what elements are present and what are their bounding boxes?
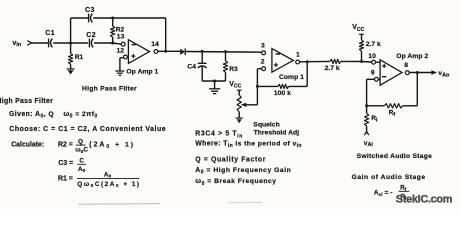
svg-text:14: 14 [151,41,159,48]
svg-text:Switched Audio Stage: Switched Audio Stage [357,153,433,160]
svg-text:R3: R3 [229,66,238,73]
svg-text:10: 10 [368,53,376,60]
svg-text:Choose: C = C1 = C2, A Conveni: Choose: C = C1 = C2, A Convenient Value [9,126,166,133]
svg-text:R2 =: R2 = [58,141,73,148]
svg-text:1: 1 [296,51,300,58]
svg-text:Qω0C(2A0 + 1): Qω0C(2A0 + 1) [77,181,140,189]
svg-text:3: 3 [261,43,265,50]
svg-text:13: 13 [117,33,125,40]
svg-text:vAi: vAi [364,140,374,148]
svg-text:100 k: 100 k [274,90,291,97]
svg-text:Op Amp 2: Op Amp 2 [396,53,428,60]
svg-text:9: 9 [371,69,375,76]
svg-text:High Pass Filter: High Pass Filter [82,85,137,92]
svg-text:Q = Quality Factor: Q = Quality Factor [195,157,266,164]
svg-text:C3 =: C3 = [58,160,73,167]
svg-text:Comp 1: Comp 1 [279,74,304,81]
svg-text:Q: Q [78,138,83,145]
svg-text:vAo: vAo [438,70,450,78]
svg-text:C4: C4 [187,63,196,70]
svg-text:Calculate:: Calculate: [11,141,44,148]
svg-text:High Pass Filter: High Pass Filter [0,98,53,105]
svg-text:2.7 k: 2.7 k [366,41,381,48]
svg-text:R1 =: R1 = [58,176,73,183]
svg-text:Gain of Audio Stage: Gain of Audio Stage [352,174,426,181]
svg-text:Op Amp 1: Op Amp 1 [126,69,158,76]
svg-text:12: 12 [117,48,125,55]
svg-text:2.7 k: 2.7 k [325,65,340,72]
svg-text:Threshold Adj: Threshold Adj [254,130,300,137]
svg-text:C2: C2 [86,32,96,39]
svg-text:Squelch: Squelch [253,121,279,128]
svg-text:StekIC.com: StekIC.com [396,194,453,206]
svg-text:C: C [79,157,84,164]
svg-text:2: 2 [261,59,265,66]
svg-text:C1: C1 [45,30,55,37]
svg-text:R1: R1 [75,54,84,61]
svg-text:8: 8 [404,62,408,69]
svg-text:C3: C3 [85,7,95,14]
